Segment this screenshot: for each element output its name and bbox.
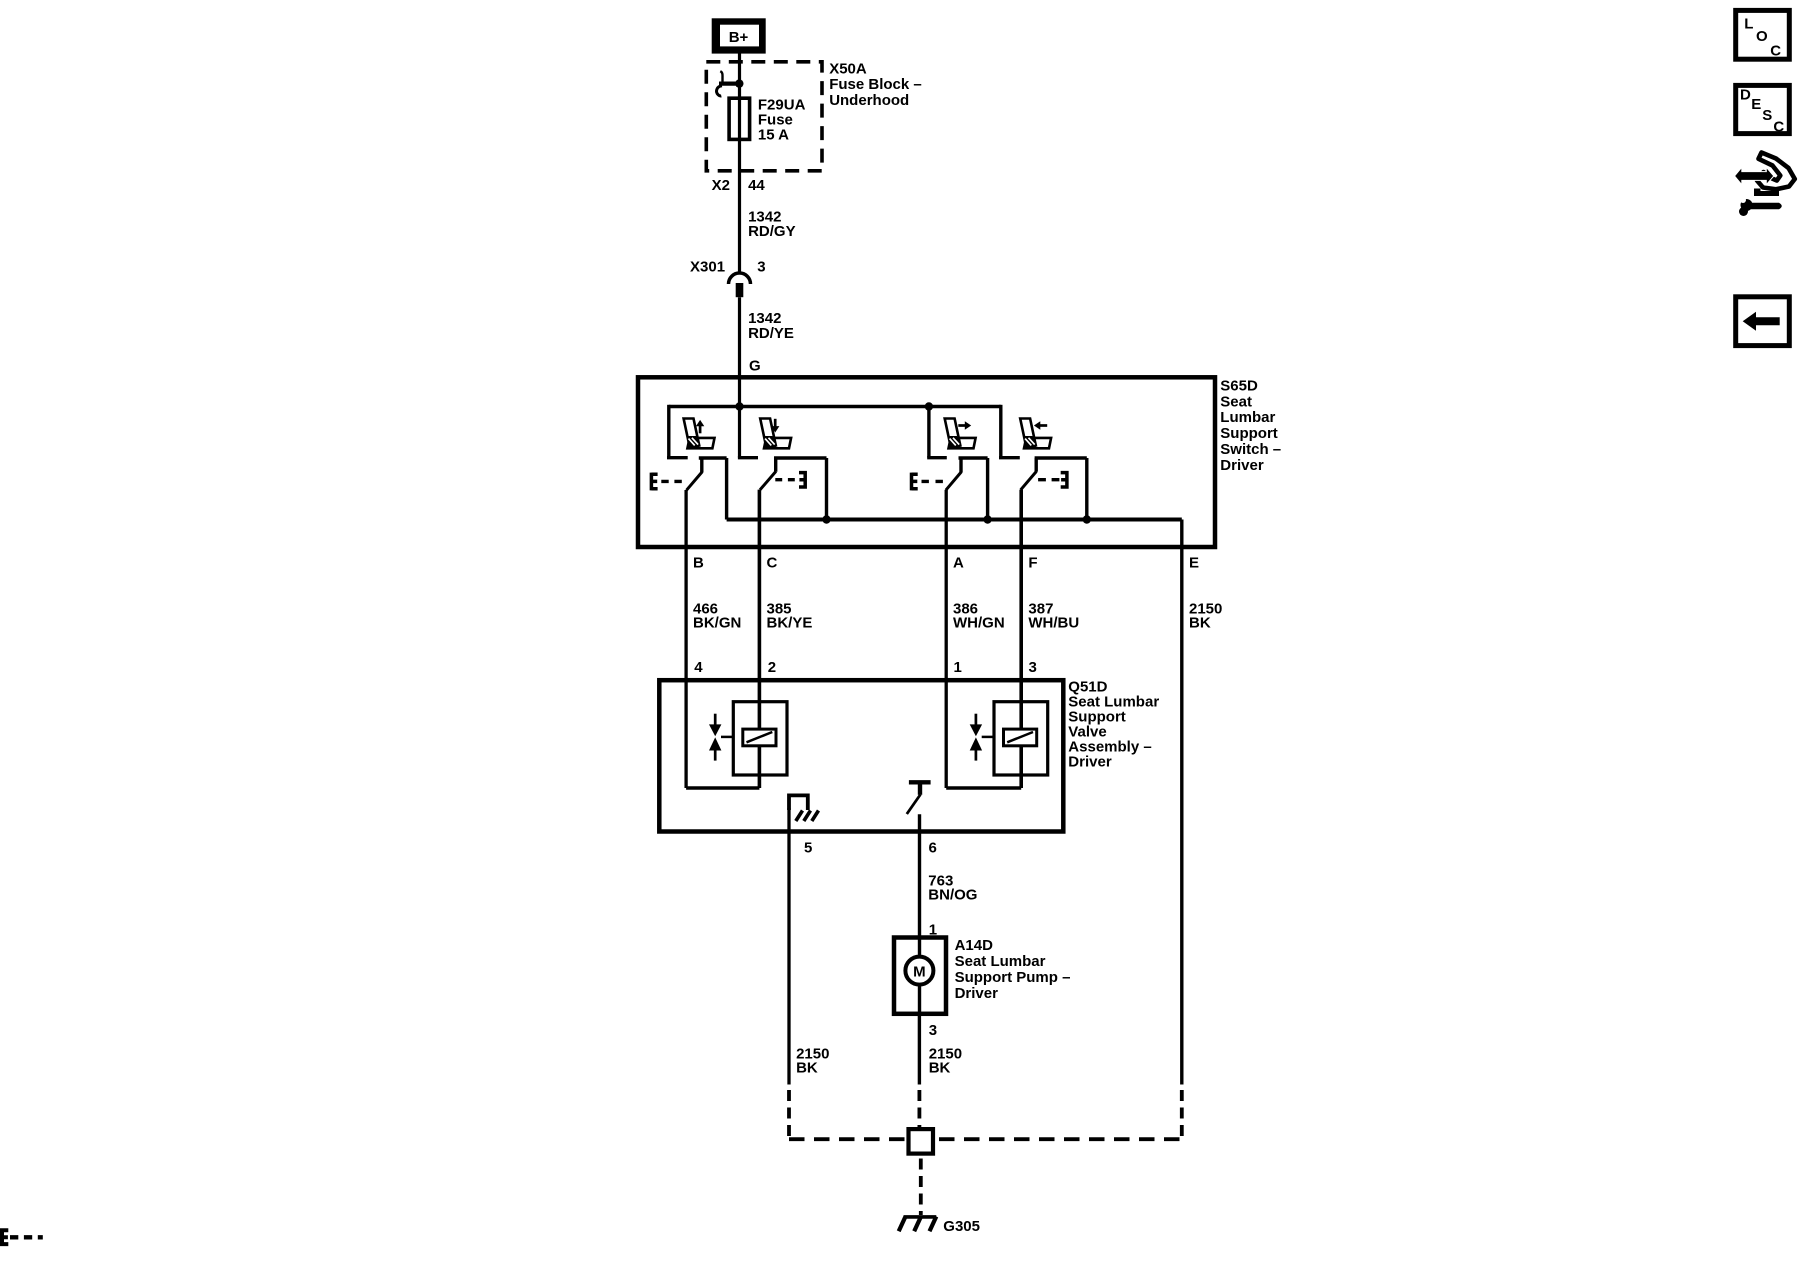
pin A [953, 555, 964, 572]
linkage bracket switch 3 [912, 473, 943, 491]
svg-text:X50A: X50A [829, 61, 867, 78]
solenoid valve 1 coil frame [733, 702, 787, 775]
wire F [1019, 490, 1023, 788]
pin 44 [748, 177, 765, 194]
pin 1 [954, 659, 962, 676]
svg-text:BN/OG: BN/OG [928, 887, 977, 904]
wire dashed ground bus [789, 1137, 1182, 1141]
wire internal feed bus [669, 405, 1001, 408]
svg-text:Lumbar: Lumbar [1220, 409, 1275, 426]
pin E [1189, 555, 1199, 572]
wire label 387 WH/BU [1028, 600, 1079, 631]
wire label 2150 BK left [796, 1045, 829, 1076]
pin 4 [694, 659, 703, 676]
pressure switch pump feed [907, 782, 931, 814]
wire label 1342 RD/GY [748, 209, 796, 240]
wire feed drop switch 3 [927, 407, 947, 458]
wire label 1342 RD/YE [748, 310, 794, 342]
icon DESC box [1736, 85, 1790, 135]
svg-text:WH/GN: WH/GN [953, 615, 1005, 632]
pin X2 [712, 177, 730, 194]
wire label 386 WH/GN [953, 600, 1005, 631]
svg-text:BK/YE: BK/YE [767, 615, 813, 632]
pin F [1028, 555, 1037, 572]
switch contact 4 (rearward) [1021, 458, 1087, 520]
switch S65D box outline [638, 377, 1215, 547]
icon schematic navigation arrows [1735, 153, 1795, 217]
wire pin 5 [787, 808, 790, 1085]
svg-text:RD/YE: RD/YE [748, 325, 794, 342]
svg-text:L: L [1744, 15, 1753, 32]
svg-text:X2: X2 [712, 177, 730, 194]
wire dashed to G305 [919, 1159, 923, 1216]
node bus junction switch 2 [822, 515, 830, 523]
svg-text:E: E [1189, 555, 1199, 572]
wire label 763 BN/OG [928, 872, 977, 903]
svg-text:BK: BK [929, 1060, 951, 1077]
wire through pump [918, 1014, 921, 1085]
svg-text:3: 3 [1029, 659, 1037, 676]
pin 2 [768, 659, 776, 676]
wire label 2150 BK right [929, 1045, 962, 1076]
wire link pins 4-2 [686, 786, 759, 790]
switch contact 2 (down) [760, 458, 827, 520]
pin G [749, 357, 761, 374]
pin 3 [1029, 659, 1037, 676]
svg-text:Driver: Driver [1220, 457, 1264, 474]
svg-text:A14D: A14D [955, 937, 994, 954]
icon seat lumbar up [684, 419, 715, 449]
valve 2 symbol [970, 714, 994, 761]
label A14D Seat Lumbar Support Pump - Driver [955, 937, 1071, 1002]
switch contact 3 (forward) [946, 458, 988, 520]
wire pin 6 [918, 814, 921, 1014]
pin 6 [929, 840, 937, 857]
fuse block X50A dashed box [706, 62, 822, 171]
pin 3 pump [929, 1022, 937, 1039]
solenoid valve 1 coil [743, 729, 776, 746]
svg-text:1: 1 [954, 659, 962, 676]
svg-text:RD/GY: RD/GY [748, 223, 796, 240]
icon LOC box [1736, 10, 1790, 59]
pin 3 [757, 259, 765, 276]
svg-text:Seat: Seat [1220, 393, 1252, 410]
switch contact 1 (up) [687, 458, 727, 520]
fuse F29UA [729, 98, 750, 139]
wire A [945, 490, 948, 788]
ground symbol internal pin 5 [789, 795, 819, 821]
svg-text:3: 3 [929, 1022, 937, 1039]
battery B+ terminal [712, 18, 766, 53]
wire label 2150 BK [1189, 600, 1222, 631]
svg-text:F: F [1028, 555, 1037, 572]
svg-text:Underhood: Underhood [829, 92, 909, 109]
wire dashed ground run E [1180, 1090, 1184, 1141]
wire bus left drop [667, 405, 688, 458]
icon seat lumbar rearward [1020, 419, 1051, 449]
svg-text:B: B [693, 555, 704, 572]
icon seat lumbar forward [945, 419, 976, 449]
node bus junction switch 4 [1083, 515, 1091, 523]
svg-text:G: G [749, 357, 761, 374]
svg-text:S65D: S65D [1220, 377, 1258, 394]
solenoid valve 2 coil frame [994, 702, 1048, 775]
svg-text:Seat Lumbar: Seat Lumbar [955, 953, 1046, 970]
svg-text:D: D [1740, 87, 1751, 104]
node bus junction switch 3 [983, 515, 991, 523]
legend linkage bracket bottom left [2, 1228, 43, 1246]
label S65D Seat Lumbar Support Switch - Driver [1220, 377, 1281, 474]
svg-text:O: O [1756, 28, 1768, 45]
connector X301 symbol [729, 273, 751, 297]
svg-text:BK: BK [796, 1060, 818, 1077]
icon seat lumbar down [760, 419, 791, 449]
svg-text:Driver: Driver [955, 985, 999, 1002]
pin B [693, 555, 704, 572]
wire switch output bus to E [727, 520, 1182, 1085]
wire bus right drop switch 4 [999, 405, 1020, 458]
connector X301 label [690, 259, 725, 276]
svg-text:E: E [1751, 96, 1761, 113]
svg-text:Driver: Driver [1068, 754, 1112, 771]
label X50A Fuse Block - Underhood [829, 61, 922, 109]
svg-text:Support: Support [1220, 425, 1278, 442]
svg-text:M: M [913, 964, 926, 981]
svg-text:6: 6 [929, 840, 937, 857]
wire dashed ground run pump [918, 1090, 922, 1129]
fuse block terminal clip [717, 71, 744, 96]
pump A14D motor box [894, 938, 946, 1014]
pin 1 pump [929, 921, 937, 938]
svg-text:A: A [953, 555, 964, 572]
svg-text:G305: G305 [943, 1218, 980, 1235]
wire link pins 1-3 [946, 786, 1021, 790]
wire label 466 BK/GN [693, 600, 741, 631]
pin C [767, 555, 778, 572]
svg-text:Switch –: Switch – [1220, 441, 1281, 458]
label Q51D Seat Lumbar Support Valve Assembly - Driver [1068, 679, 1159, 771]
svg-text:3: 3 [757, 259, 765, 276]
svg-text:4: 4 [694, 659, 703, 676]
node feed junction G [735, 402, 743, 410]
linkage bracket switch 1 [651, 473, 681, 491]
svg-text:B+: B+ [729, 29, 749, 46]
wire C [758, 490, 762, 788]
svg-text:15 A: 15 A [758, 127, 789, 144]
svg-text:S: S [1762, 107, 1772, 124]
wire feed drop switch 2 [738, 407, 758, 458]
label F29UA Fuse 15 A [758, 96, 806, 143]
svg-text:C: C [1770, 42, 1781, 59]
label G305 [943, 1218, 980, 1235]
valve 1 symbol [709, 714, 733, 761]
svg-text:X301: X301 [690, 259, 725, 276]
pin 5 [804, 840, 812, 857]
wire B [684, 490, 687, 788]
svg-text:5: 5 [804, 840, 812, 857]
svg-text:C: C [767, 555, 778, 572]
svg-text:44: 44 [748, 177, 765, 194]
wire dashed ground run left [787, 1090, 791, 1141]
svg-text:BK: BK [1189, 615, 1211, 632]
splice ground junction [909, 1129, 934, 1154]
wire 1342 RD/YE [738, 297, 741, 406]
node feed junction switch 3 [925, 402, 933, 410]
icon back arrow box [1736, 297, 1790, 346]
svg-text:Fuse Block –: Fuse Block – [829, 76, 922, 93]
svg-text:BK/GN: BK/GN [693, 615, 741, 632]
svg-text:Support Pump –: Support Pump – [955, 969, 1071, 986]
wire B+ feed to fuse block and down to X301 [738, 53, 741, 272]
linkage bracket switch 4 [1038, 471, 1067, 489]
svg-text:C: C [1773, 118, 1784, 135]
svg-text:WH/BU: WH/BU [1028, 615, 1079, 632]
svg-text:2: 2 [768, 659, 776, 676]
valve assembly Q51D box outline [659, 680, 1063, 831]
ground G305 symbol [899, 1217, 937, 1232]
solenoid valve 2 coil [1004, 729, 1037, 746]
wire label 385 BK/YE [767, 600, 813, 631]
linkage bracket switch 2 [775, 471, 805, 489]
motor M symbol [905, 957, 933, 985]
